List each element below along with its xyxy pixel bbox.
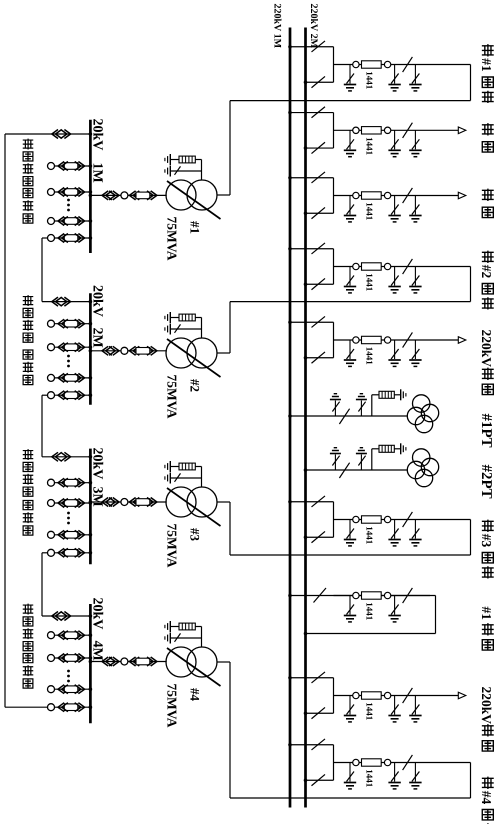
svg-text:#2PT: #2PT: [478, 465, 494, 499]
svg-text:220kV 2M: 220kV 2M: [308, 4, 319, 49]
svg-text:1441: 1441: [365, 137, 375, 156]
svg-text:220kV 1M: 220kV 1M: [272, 4, 283, 49]
svg-text:1441: 1441: [365, 202, 375, 221]
svg-text:#3: #3: [479, 534, 494, 548]
svg-text:3M: 3M: [90, 487, 105, 507]
svg-text:1441: 1441: [365, 526, 375, 545]
svg-text:75MVA: 75MVA: [165, 524, 180, 568]
svg-text:75MVA: 75MVA: [165, 375, 180, 419]
svg-text:#4: #4: [479, 791, 494, 805]
svg-text:#2: #2: [188, 379, 203, 392]
svg-text:20kV: 20kV: [90, 285, 105, 317]
svg-text:20kV: 20kV: [90, 119, 105, 151]
svg-text:1441: 1441: [365, 71, 375, 90]
svg-text:220kV: 220kV: [479, 330, 494, 368]
svg-text:#4: #4: [188, 688, 203, 702]
svg-text:75MVA: 75MVA: [165, 684, 180, 728]
svg-text:75MVA: 75MVA: [165, 217, 180, 261]
svg-text:#1: #1: [188, 221, 203, 234]
svg-text:4M: 4M: [90, 641, 105, 661]
svg-text:1441: 1441: [365, 602, 375, 621]
svg-text:1441: 1441: [365, 273, 375, 292]
svg-text:#2: #2: [479, 265, 494, 279]
svg-text:20kV: 20kV: [90, 448, 105, 480]
svg-text:#1: #1: [479, 607, 494, 621]
svg-text:#1: #1: [479, 58, 494, 72]
svg-text:2M: 2M: [90, 328, 105, 348]
svg-text:20kV: 20kV: [90, 598, 105, 630]
svg-text:#1PT: #1PT: [478, 414, 494, 448]
svg-text:220kV: 220kV: [479, 687, 494, 725]
svg-text:1M: 1M: [90, 163, 105, 183]
svg-text:1441: 1441: [365, 347, 375, 366]
svg-text:1441: 1441: [365, 702, 375, 721]
svg-text:1441: 1441: [365, 769, 375, 788]
svg-text:#3: #3: [188, 528, 203, 542]
